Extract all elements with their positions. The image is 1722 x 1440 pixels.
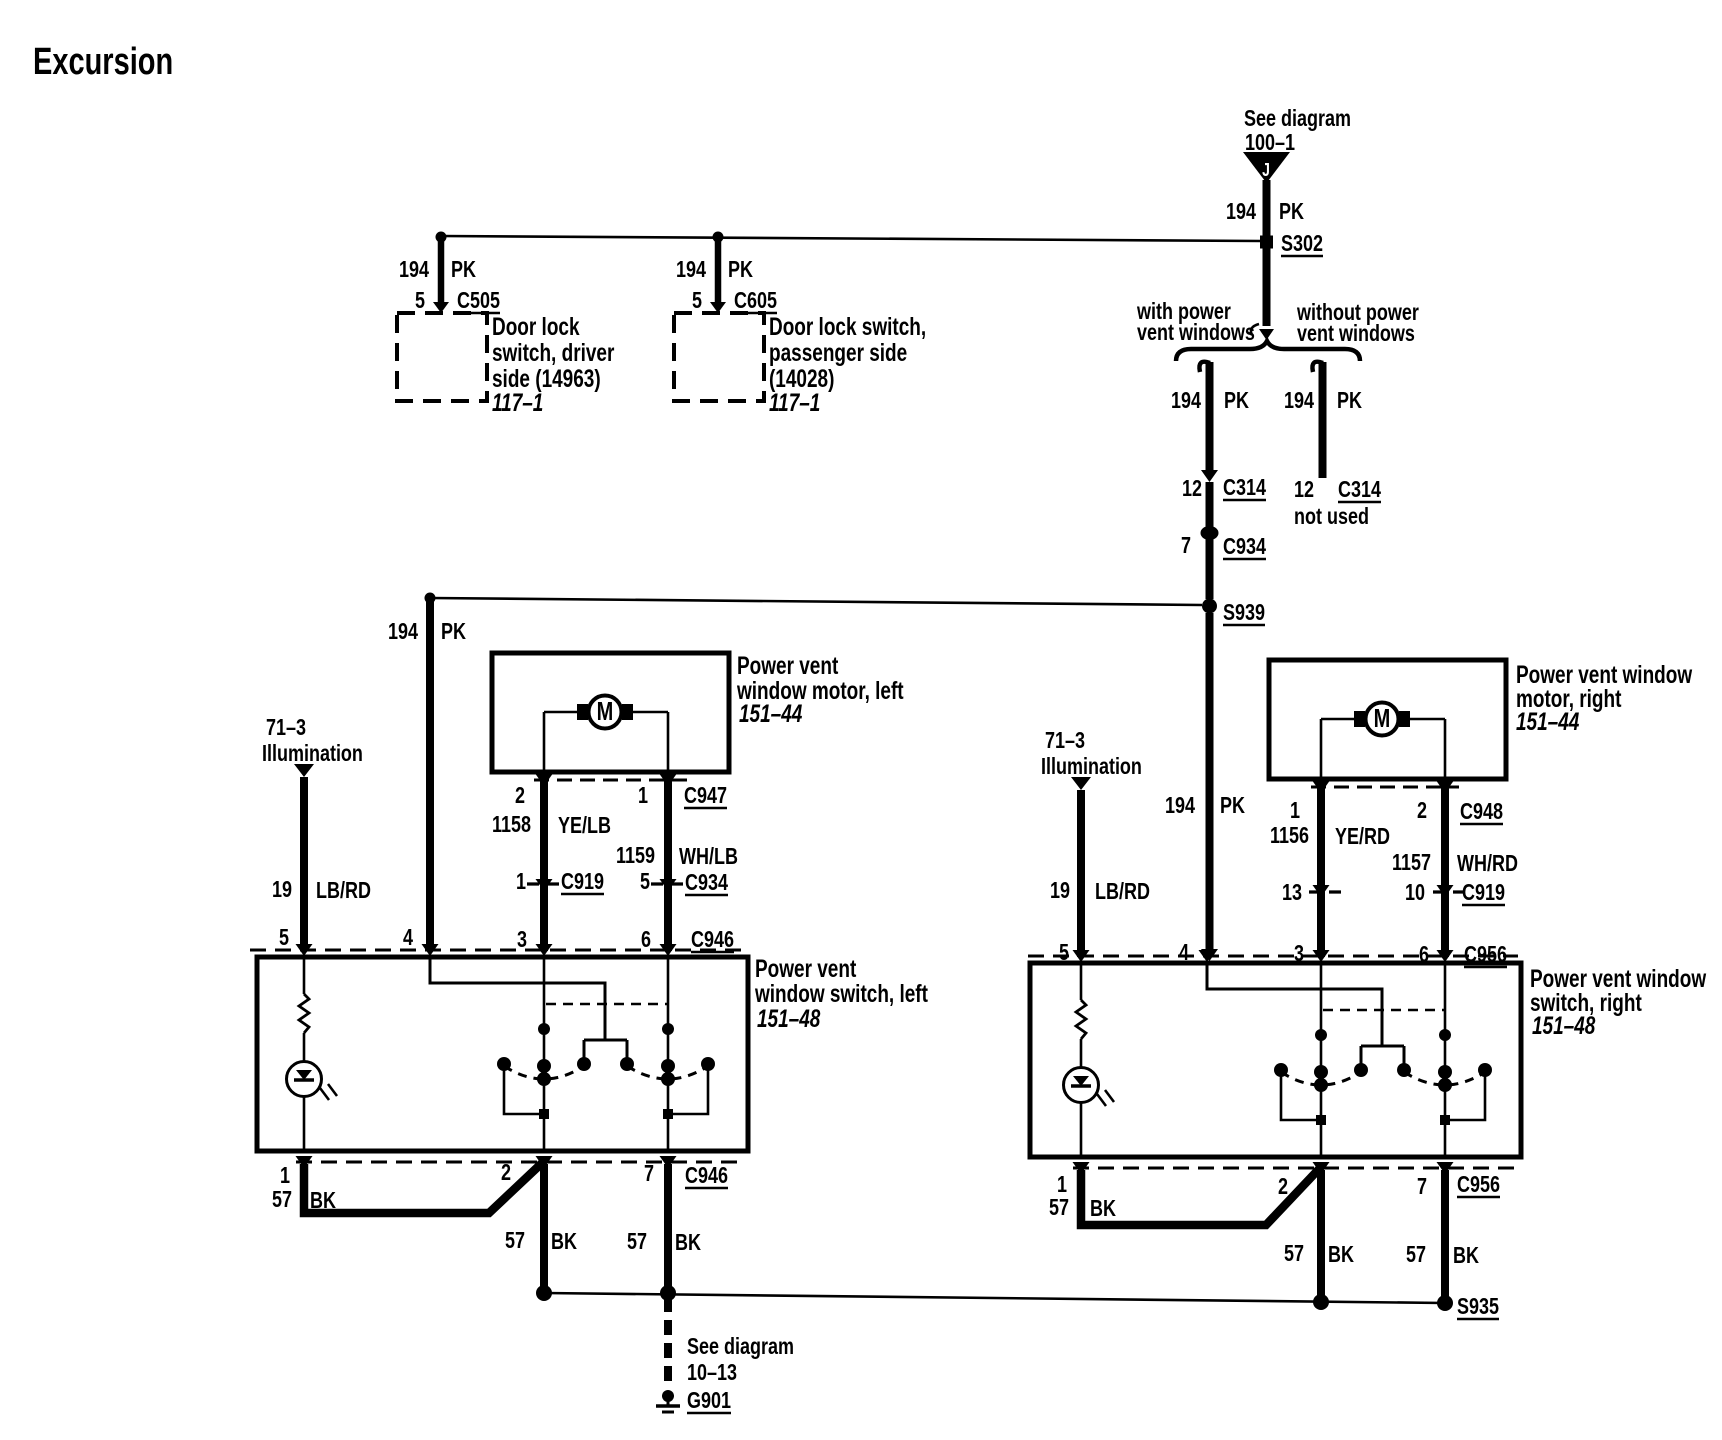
svg-text:C919: C919 (1462, 880, 1505, 906)
svg-text:1: 1 (638, 783, 648, 809)
svg-text:Excursion: Excursion (33, 41, 173, 82)
svg-text:117–1: 117–1 (769, 389, 820, 417)
svg-text:1: 1 (1290, 798, 1300, 824)
svg-text:57: 57 (1284, 1241, 1304, 1267)
svg-text:10–13: 10–13 (687, 1360, 737, 1386)
svg-text:57: 57 (1406, 1242, 1426, 1268)
svg-text:BK: BK (1090, 1196, 1116, 1222)
svg-text:4: 4 (403, 925, 413, 951)
svg-text:BK: BK (551, 1229, 577, 1255)
svg-text:PK: PK (1220, 793, 1245, 819)
svg-text:C948: C948 (1460, 799, 1503, 825)
svg-text:J: J (1262, 160, 1270, 180)
svg-text:See diagram: See diagram (1244, 106, 1351, 132)
svg-text:PK: PK (441, 619, 466, 645)
svg-text:19: 19 (272, 877, 292, 903)
svg-text:13: 13 (1282, 880, 1302, 906)
svg-text:M: M (597, 696, 614, 725)
svg-text:1157: 1157 (1392, 850, 1431, 876)
svg-text:WH/LB: WH/LB (679, 844, 738, 870)
svg-text:2: 2 (501, 1160, 511, 1186)
svg-text:5: 5 (279, 925, 289, 951)
svg-text:151–44: 151–44 (1516, 708, 1579, 736)
svg-text:M: M (1374, 703, 1391, 732)
svg-text:C314: C314 (1223, 475, 1266, 501)
svg-text:57: 57 (627, 1229, 647, 1255)
svg-text:194: 194 (1165, 793, 1195, 819)
svg-text:See diagram: See diagram (687, 1334, 794, 1360)
svg-text:12: 12 (1182, 476, 1202, 502)
svg-text:PK: PK (1224, 388, 1249, 414)
svg-text:YE/RD: YE/RD (1335, 824, 1390, 850)
svg-text:2: 2 (515, 783, 525, 809)
svg-text:194: 194 (1171, 388, 1201, 414)
svg-text:Power vent: Power vent (737, 652, 839, 680)
svg-text:71–3: 71–3 (266, 715, 306, 741)
svg-text:57: 57 (505, 1228, 525, 1254)
svg-text:5: 5 (1059, 940, 1069, 966)
svg-text:WH/RD: WH/RD (1457, 851, 1518, 877)
svg-text:Door lock: Door lock (492, 313, 580, 341)
svg-text:BK: BK (675, 1230, 701, 1256)
svg-text:7: 7 (644, 1161, 654, 1187)
svg-text:151–48: 151–48 (757, 1005, 821, 1033)
svg-text:7: 7 (1417, 1174, 1427, 1200)
svg-text:194: 194 (1284, 388, 1314, 414)
svg-text:1: 1 (1057, 1172, 1067, 1198)
svg-text:6: 6 (641, 927, 651, 953)
svg-text:BK: BK (1328, 1242, 1354, 1268)
svg-text:1: 1 (516, 869, 526, 895)
svg-text:LB/RD: LB/RD (1095, 879, 1150, 905)
svg-text:151–48: 151–48 (1532, 1012, 1596, 1040)
svg-text:not used: not used (1294, 504, 1369, 530)
svg-text:57: 57 (1049, 1195, 1069, 1221)
svg-text:6: 6 (1419, 942, 1429, 968)
svg-text:PK: PK (728, 257, 753, 283)
svg-text:C314: C314 (1338, 477, 1381, 503)
svg-text:BK: BK (1453, 1243, 1479, 1269)
svg-text:C934: C934 (1223, 534, 1266, 560)
svg-text:7: 7 (1181, 533, 1191, 559)
svg-text:10: 10 (1405, 880, 1425, 906)
svg-text:C934: C934 (685, 870, 728, 896)
svg-text:3: 3 (517, 927, 527, 953)
svg-text:C919: C919 (561, 869, 604, 895)
svg-text:YE/LB: YE/LB (558, 813, 611, 839)
svg-text:C605: C605 (734, 288, 777, 314)
svg-text:5: 5 (692, 288, 702, 314)
svg-text:LB/RD: LB/RD (316, 878, 371, 904)
svg-text:G901: G901 (687, 1388, 731, 1414)
svg-text:194: 194 (388, 619, 418, 645)
svg-text:C947: C947 (684, 783, 727, 809)
svg-text:151–44: 151–44 (739, 700, 802, 728)
svg-text:passenger side: passenger side (769, 339, 907, 367)
svg-text:PK: PK (1279, 199, 1304, 225)
svg-text:PK: PK (1337, 388, 1362, 414)
svg-text:57: 57 (272, 1187, 292, 1213)
svg-text:1158: 1158 (492, 812, 531, 838)
svg-text:vent windows: vent windows (1137, 320, 1255, 346)
svg-text:12: 12 (1294, 477, 1314, 503)
svg-text:Illumination: Illumination (262, 741, 363, 767)
svg-text:71–3: 71–3 (1045, 728, 1085, 754)
svg-text:4: 4 (1179, 940, 1189, 966)
svg-text:S935: S935 (1457, 1294, 1499, 1320)
svg-text:194: 194 (399, 257, 429, 283)
svg-text:S302: S302 (1281, 231, 1323, 257)
svg-text:1159: 1159 (616, 843, 655, 869)
svg-text:C946: C946 (691, 927, 734, 953)
svg-text:vent windows: vent windows (1297, 321, 1415, 347)
svg-text:2: 2 (1278, 1174, 1288, 1200)
svg-text:117–1: 117–1 (492, 389, 543, 417)
svg-text:1: 1 (280, 1163, 290, 1189)
svg-text:C956: C956 (1464, 942, 1507, 968)
svg-text:Illumination: Illumination (1041, 754, 1142, 780)
svg-text:100–1: 100–1 (1245, 130, 1295, 156)
svg-text:window switch, left: window switch, left (754, 980, 928, 1008)
svg-text:C946: C946 (685, 1163, 728, 1189)
svg-text:19: 19 (1050, 878, 1070, 904)
svg-text:194: 194 (1226, 199, 1256, 225)
svg-text:2: 2 (1417, 798, 1427, 824)
svg-text:Power vent: Power vent (755, 955, 857, 983)
svg-text:1156: 1156 (1270, 823, 1309, 849)
svg-text:3: 3 (1294, 941, 1304, 967)
svg-text:C956: C956 (1457, 1172, 1500, 1198)
svg-text:5: 5 (640, 869, 650, 895)
svg-text:PK: PK (451, 257, 476, 283)
svg-text:switch, driver: switch, driver (492, 339, 615, 367)
svg-text:5: 5 (415, 288, 425, 314)
svg-text:S939: S939 (1223, 600, 1265, 626)
svg-text:C505: C505 (457, 288, 500, 314)
svg-text:194: 194 (676, 257, 706, 283)
svg-text:Door lock switch,: Door lock switch, (769, 313, 926, 341)
